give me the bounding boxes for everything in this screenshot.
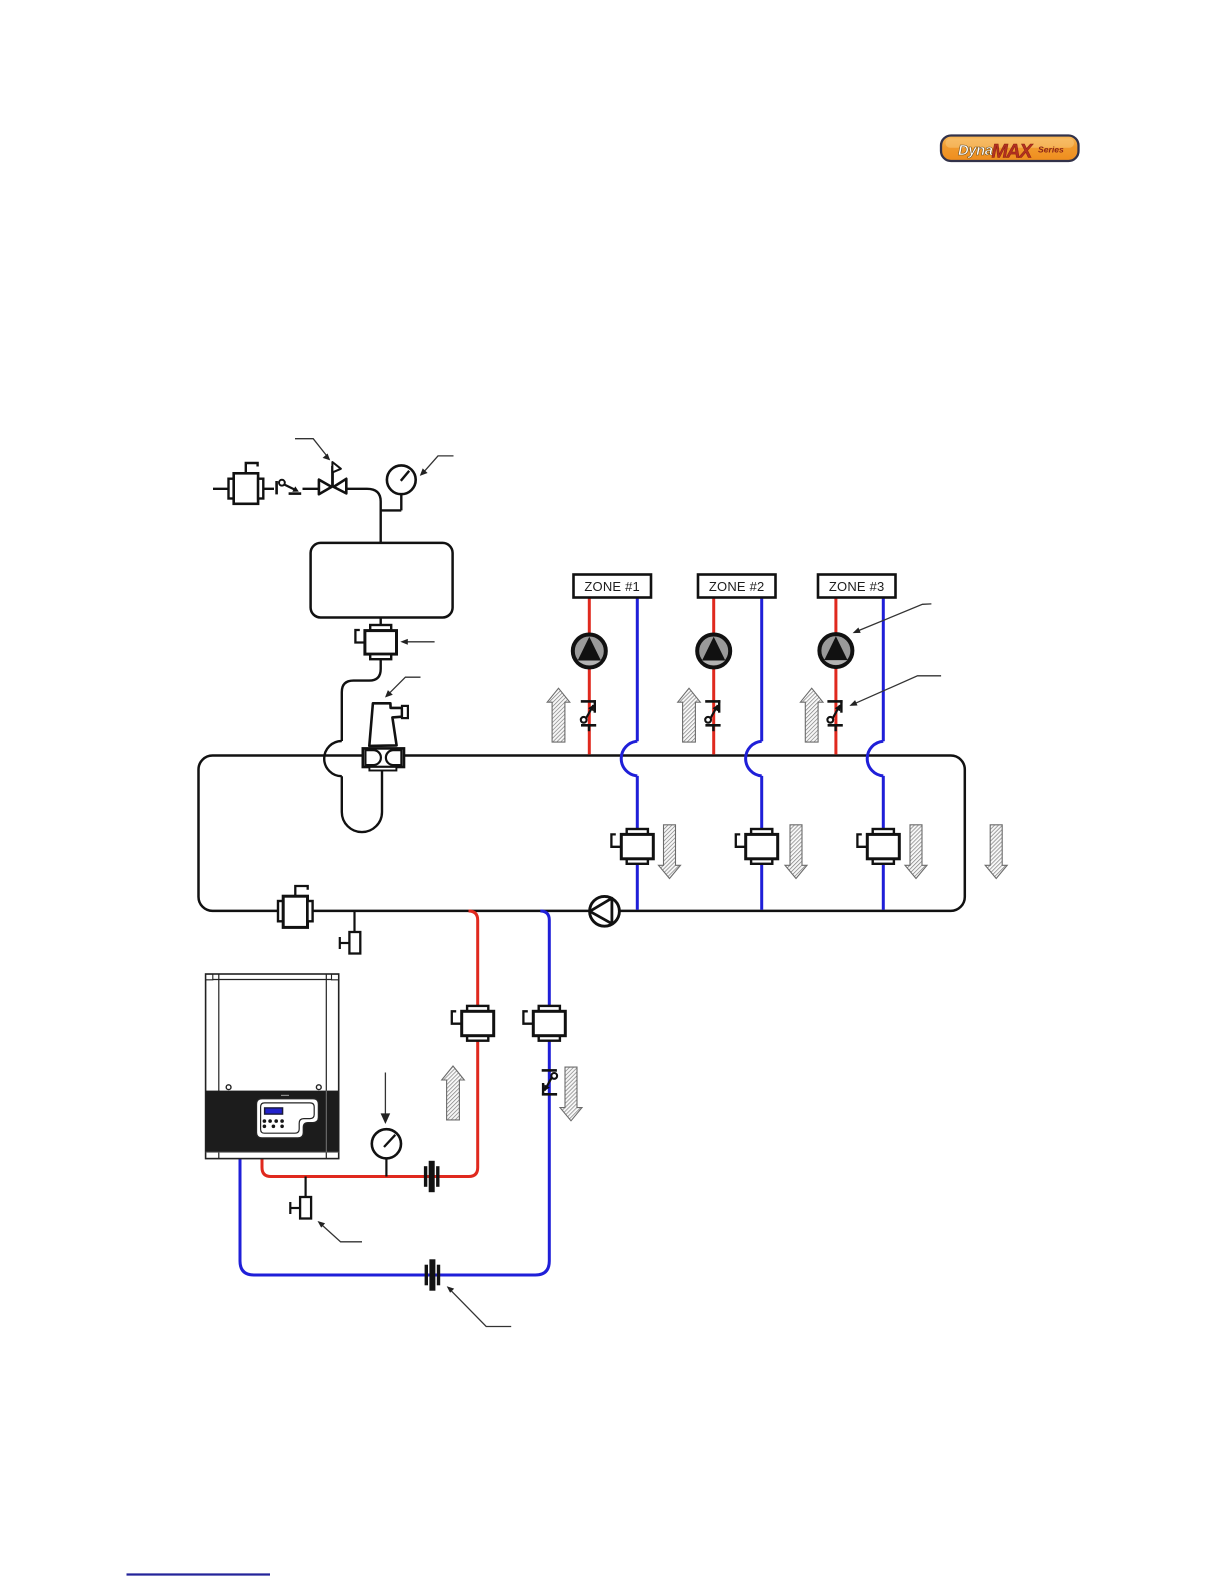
wire: zone 3 supply (red) — [834, 598, 837, 755]
purge valve (bottom header) — [278, 886, 313, 927]
wire — [263, 488, 274, 490]
ball valve (expansion tank) — [355, 625, 396, 659]
pressure reducing valve — [319, 462, 346, 494]
wire: boiler return riser (blue) — [240, 911, 549, 1275]
zone valve 3 — [827, 700, 842, 725]
ball valve (zone 2 return) — [736, 829, 778, 864]
primary loop header — [199, 756, 965, 911]
wire: zone 3 return (blue) — [882, 598, 885, 742]
leader to PRV — [295, 439, 330, 461]
wire: zone 3 return hop — [867, 741, 883, 776]
leader arrow to gauge — [381, 1073, 391, 1125]
ball valve (zone 3 return) — [857, 829, 899, 864]
wire: cold feed stub — [213, 488, 230, 490]
flow arrow up (zone 1) — [547, 688, 570, 742]
leader to gauge — [420, 456, 454, 476]
flow arrow up (supply) — [442, 1066, 465, 1120]
ball valve (zone 1 return) — [611, 829, 653, 864]
leader to union — [447, 1286, 512, 1326]
zone pump 1 — [573, 635, 606, 668]
svg-text:ZONE #2: ZONE #2 — [709, 579, 765, 594]
ball valve (return riser) — [523, 1006, 565, 1041]
backflow preventer — [229, 463, 264, 504]
boiler cabinet — [206, 974, 339, 1159]
flow arrow down (zone 1 return) — [659, 825, 681, 879]
check valve (feed) — [277, 480, 302, 495]
wire — [882, 776, 885, 910]
wire: boiler supply riser (red) — [262, 911, 478, 1177]
svg-text:Series: Series — [1038, 145, 1064, 155]
zone pump 2 — [697, 635, 730, 668]
wire: U-trap to air separator — [342, 771, 382, 833]
ball valve (supply riser) — [452, 1006, 494, 1041]
leader to air separator — [385, 677, 421, 697]
wire — [303, 488, 320, 490]
wire: zone 2 return hop — [746, 741, 762, 776]
wire: zone 1 supply (red) — [588, 598, 591, 755]
zone valve 2 — [705, 700, 720, 725]
wire: zone 2 return (blue) — [760, 598, 763, 742]
expansion tank — [311, 543, 453, 618]
wire: tank to valve — [380, 618, 382, 626]
svg-text:MAX: MAX — [992, 141, 1034, 163]
temperature gauge (supply) — [372, 1129, 401, 1176]
wire: zone 1 return hop — [621, 741, 637, 776]
drain valve (bottom header) — [340, 911, 361, 954]
leader to zone 3 valve — [849, 676, 941, 706]
zone box ZONE #3 — [818, 575, 896, 598]
system pump — [590, 896, 620, 926]
flow arrow down (zone 2 return) — [785, 825, 807, 879]
zone valve 1 — [581, 700, 596, 725]
air separator — [363, 703, 408, 770]
svg-text:Dyna: Dyna — [958, 143, 993, 159]
DynaMax logo — [941, 136, 1079, 163]
flow arrow down (zone 3 return) — [905, 825, 927, 879]
drain valve (boiler supply) — [290, 1177, 311, 1219]
flow arrow up (zone 2) — [678, 688, 701, 742]
leader to tank valve — [400, 639, 434, 645]
boiler control panel — [257, 1095, 319, 1138]
svg-text:ZONE #3: ZONE #3 — [829, 579, 885, 594]
footer rule — [127, 1573, 271, 1575]
pressure gauge (feed) — [381, 465, 416, 510]
wire: S-curve to hop — [342, 660, 381, 742]
check valve (return riser) — [542, 1070, 557, 1095]
wire: feed to tank elbow — [347, 489, 381, 544]
wire: zone 2 supply (red) — [712, 598, 715, 755]
wire: hop over header (expansion line) — [324, 741, 342, 776]
zone box ZONE #1 — [574, 575, 652, 598]
leader to drain valve — [318, 1221, 363, 1242]
flow arrow down (header outlet) — [985, 825, 1007, 879]
flow arrow down (return) — [560, 1067, 582, 1121]
flow arrow up (zone 3) — [800, 688, 823, 742]
zone box ZONE #2 — [698, 575, 776, 598]
wire — [760, 776, 763, 910]
union (return) — [425, 1259, 441, 1290]
zone pump 3 — [819, 634, 852, 667]
leader to zone 3 pump — [853, 604, 932, 633]
wire — [636, 776, 639, 910]
wire: zone 1 return (blue) — [636, 598, 639, 742]
union (supply) — [424, 1161, 440, 1192]
svg-text:ZONE #1: ZONE #1 — [584, 579, 640, 594]
